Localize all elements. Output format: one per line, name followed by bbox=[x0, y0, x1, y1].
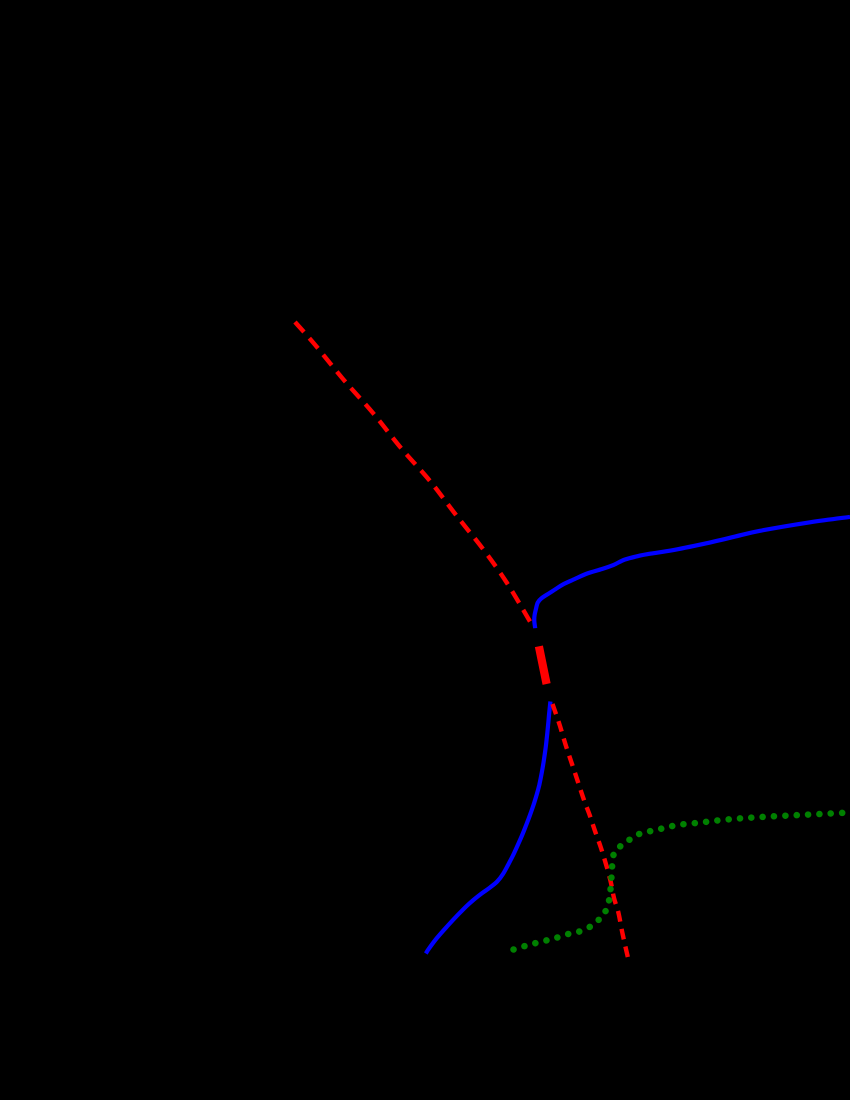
red dashed curve lower part bbox=[553, 704, 628, 957]
blue solid curve upper stable branch bbox=[534, 517, 850, 628]
green dotted curve bbox=[514, 813, 850, 950]
thick red dash unstable middle branch bbox=[539, 646, 547, 684]
blue solid curve lower stable branch bbox=[426, 702, 551, 954]
red dashed curve upper part bbox=[295, 322, 530, 622]
